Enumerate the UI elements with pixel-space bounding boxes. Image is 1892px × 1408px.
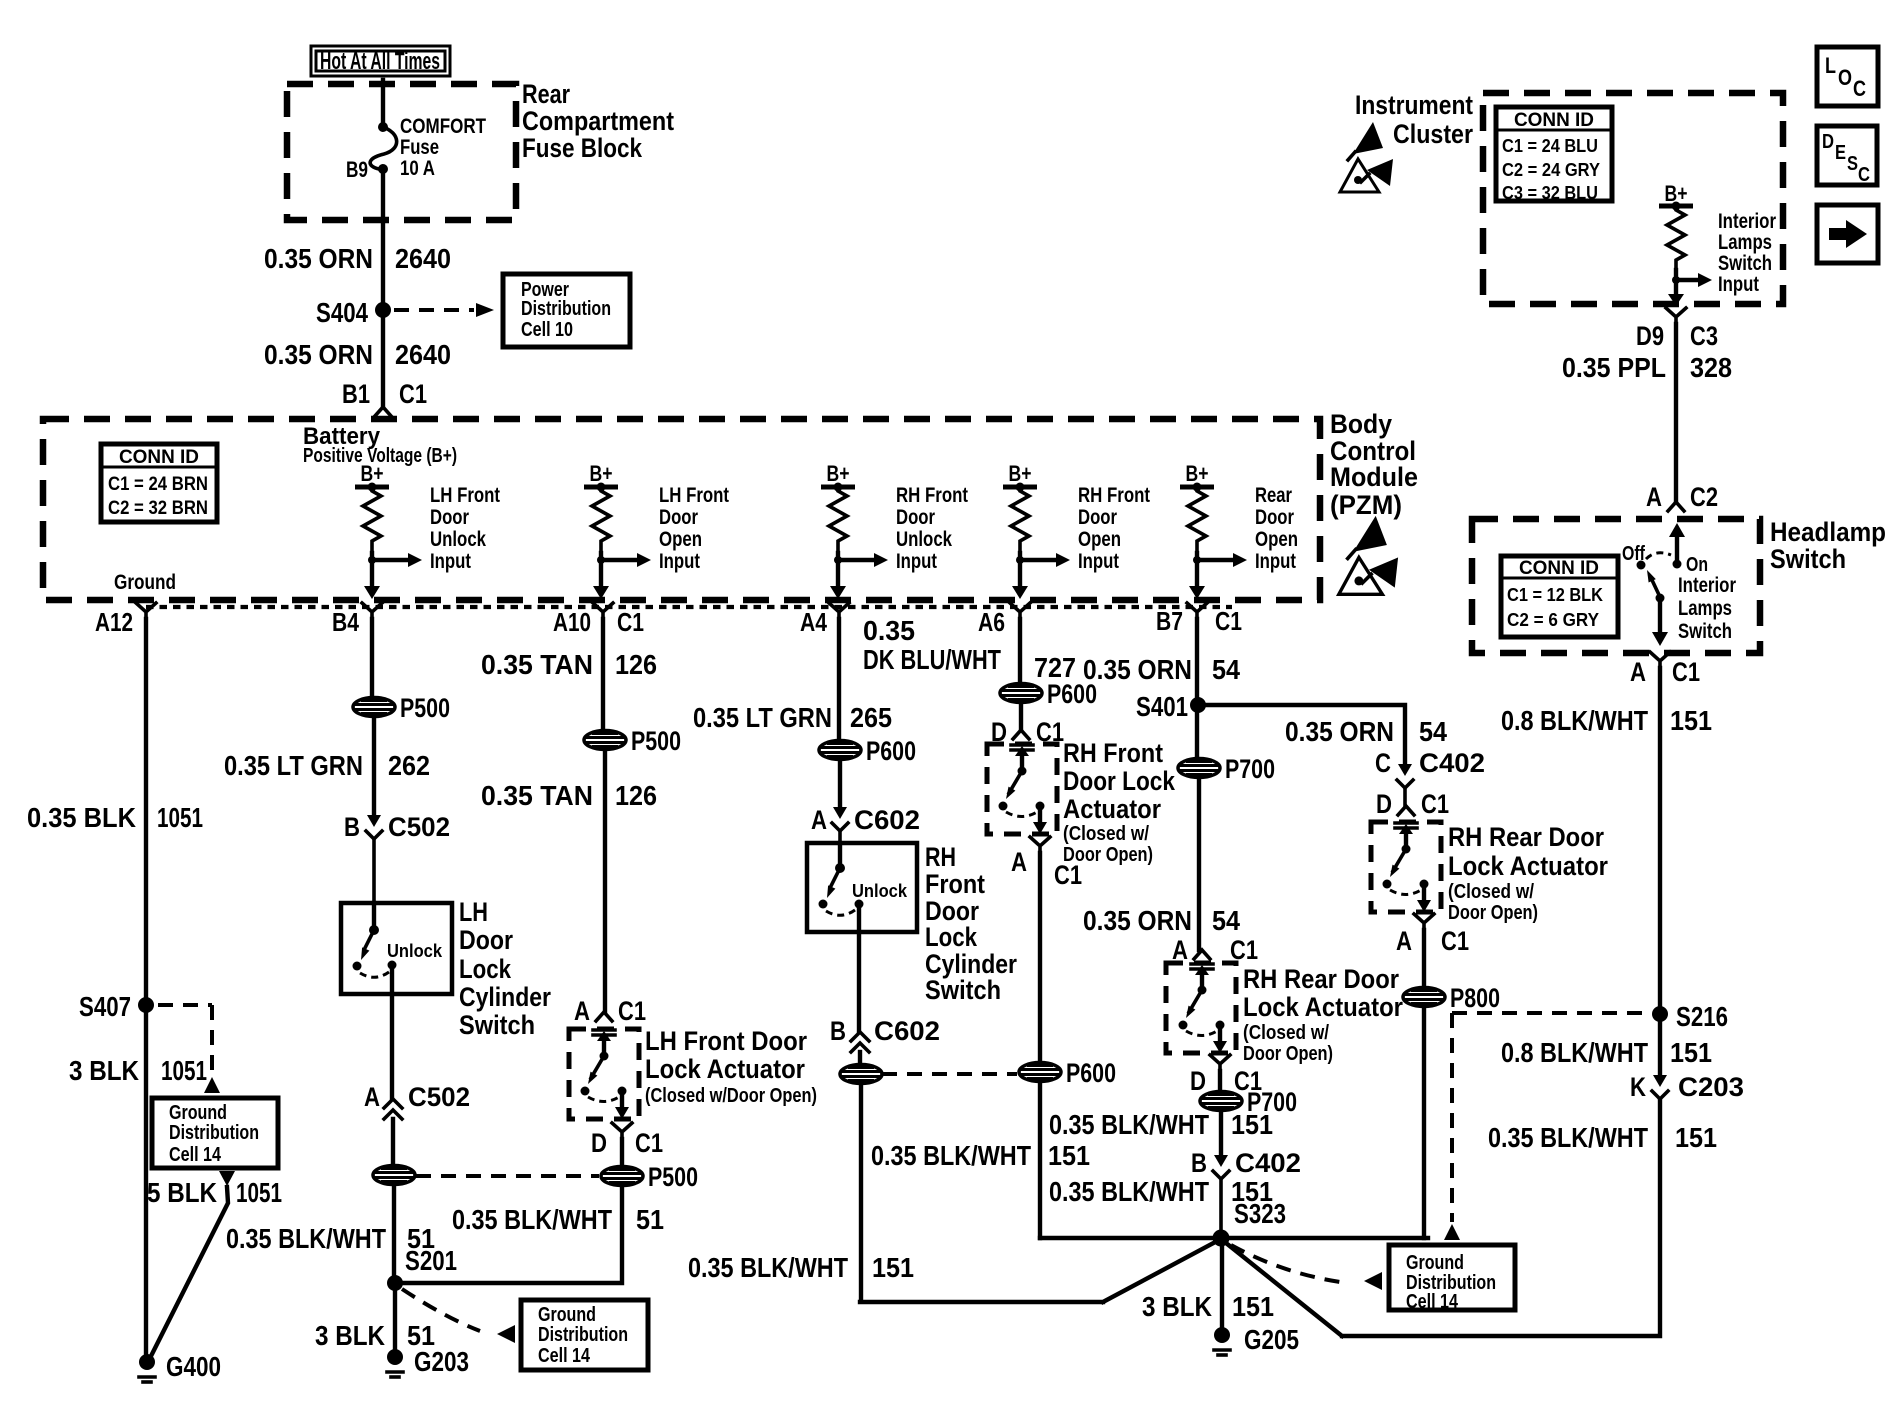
svg-text:B+: B+ — [361, 461, 384, 486]
svg-text:Instrument: Instrument — [1355, 90, 1473, 120]
wire bottom run right to headlamp column — [1221, 1099, 1660, 1336]
dashed reference S201 to Ground Distribution — [402, 1289, 480, 1331]
svg-text:S407: S407 — [79, 991, 131, 1022]
dashed box Rear Compartment Fuse Block — [287, 84, 516, 220]
svg-text:Unlock: Unlock — [852, 881, 908, 901]
svg-text:G203: G203 — [414, 1346, 469, 1377]
actuator box RH Rear Door Lock Actuator left — [1166, 963, 1236, 1053]
connector D C1 below LH actuator — [612, 1123, 632, 1139]
wire 0.35 PPL 328 — [1674, 324, 1678, 502]
svg-text:C1: C1 — [635, 1128, 663, 1158]
fuse COMFORT 10A — [378, 122, 388, 132]
pin B7 C1 — [1187, 603, 1207, 619]
svg-text:C: C — [1858, 164, 1870, 186]
svg-text:B: B — [830, 1016, 846, 1046]
svg-text:Door: Door — [896, 506, 935, 529]
svg-text:A: A — [364, 1082, 380, 1112]
svg-text:C2: C2 — [1690, 482, 1718, 512]
svg-text:Input: Input — [659, 550, 700, 573]
pin A6 — [1010, 603, 1030, 619]
svg-text:Door: Door — [1255, 506, 1294, 529]
dashed box Body Control Module PZM — [43, 419, 1320, 600]
svg-text:Open: Open — [1078, 528, 1121, 551]
svg-text:CONN ID: CONN ID — [1519, 558, 1599, 579]
svg-text:C1 = 24 BLU: C1 = 24 BLU — [1502, 136, 1598, 156]
connector P700 upper — [1178, 759, 1220, 778]
connector P500 mid — [584, 731, 626, 750]
svg-text:LH: LH — [459, 897, 488, 927]
svg-text:Unlock: Unlock — [896, 528, 952, 551]
svg-text:C2 = 24 GRY: C2 = 24 GRY — [1502, 160, 1600, 180]
svg-text:Door: Door — [459, 925, 513, 955]
svg-text:LH Front Door: LH Front Door — [645, 1026, 807, 1056]
connector D C1 below RH rear actuator left — [1210, 1055, 1230, 1071]
svg-text:C1: C1 — [1215, 606, 1242, 636]
svg-text:Rear: Rear — [1255, 484, 1292, 507]
dashed mate line P500 pair — [416, 1174, 599, 1178]
svg-text:A4: A4 — [800, 607, 827, 637]
svg-text:0.35: 0.35 — [863, 615, 915, 646]
reference box Ground Distribution Cell 14 center — [521, 1300, 648, 1370]
svg-text:D9: D9 — [1636, 321, 1664, 351]
svg-text:1051: 1051 — [157, 802, 203, 833]
wire A4 to P600 — [837, 619, 841, 740]
svg-text:C3: C3 — [1690, 321, 1718, 351]
svg-text:Switch: Switch — [1770, 544, 1846, 574]
connector P600 A6 — [1000, 684, 1042, 703]
svg-text:Distribution: Distribution — [538, 1324, 628, 1346]
svg-text:0.35 TAN: 0.35 TAN — [481, 780, 593, 811]
svg-text:B7: B7 — [1156, 606, 1183, 636]
svg-text:2640: 2640 — [395, 339, 451, 370]
svg-text:S323: S323 — [1234, 1198, 1286, 1229]
svg-text:Fuse Block: Fuse Block — [522, 133, 643, 163]
svg-text:0.35 ORN: 0.35 ORN — [264, 243, 373, 274]
svg-text:D: D — [591, 1128, 607, 1158]
svg-text:Lamps: Lamps — [1678, 597, 1732, 620]
svg-text:0.8 BLK/WHT: 0.8 BLK/WHT — [1501, 705, 1648, 736]
wire P800 down to S323 run — [1422, 1007, 1426, 1238]
svg-text:S201: S201 — [405, 1245, 457, 1276]
svg-text:Door: Door — [1078, 506, 1117, 529]
svg-text:A: A — [1646, 482, 1662, 512]
svg-text:Switch: Switch — [1718, 252, 1772, 275]
svg-text:51: 51 — [636, 1204, 664, 1235]
svg-text:151: 151 — [1232, 1291, 1274, 1322]
CONN ID table headlamp switch — [1501, 556, 1618, 637]
svg-text:126: 126 — [615, 649, 657, 680]
CONN ID table instrument cluster — [1496, 107, 1612, 201]
svg-text:0.8 BLK/WHT: 0.8 BLK/WHT — [1501, 1037, 1648, 1068]
splice S216 — [1652, 1006, 1668, 1022]
wire to P600 lower — [1038, 853, 1042, 1062]
svg-text:A: A — [1011, 847, 1027, 877]
svg-text:Switch: Switch — [1678, 620, 1732, 643]
svg-text:Unlock: Unlock — [430, 528, 486, 551]
svg-text:Cell 10: Cell 10 — [521, 319, 573, 341]
connector P600 lower — [1019, 1063, 1061, 1082]
svg-text:C1 = 24 BRN: C1 = 24 BRN — [108, 474, 208, 495]
wire 0.35 LT GRN 262 — [372, 717, 376, 815]
wire P500 to S201 — [392, 1185, 396, 1283]
svg-text:K: K — [1630, 1072, 1646, 1102]
wire 0.8 BLK-WHT 151 — [1658, 668, 1662, 1075]
svg-text:A12: A12 — [95, 607, 133, 637]
svg-text:0.35 BLK/WHT: 0.35 BLK/WHT — [1488, 1122, 1648, 1153]
svg-text:151: 151 — [1670, 705, 1712, 736]
svg-text:CONN ID: CONN ID — [119, 447, 199, 468]
connector P500 pass-through — [353, 698, 395, 717]
ground G203 — [387, 1349, 403, 1365]
wire S201 branch to P500 right half — [395, 1186, 622, 1283]
svg-text:P500: P500 — [400, 693, 450, 723]
switch box RH Front Door Lock Cylinder Switch — [807, 843, 917, 932]
svg-text:0.35 ORN: 0.35 ORN — [1083, 905, 1192, 936]
wire 0.35 BLK-WHT 151 upper — [1219, 1111, 1223, 1155]
svg-text:Cylinder: Cylinder — [459, 982, 551, 1012]
svg-text:Lock Actuator: Lock Actuator — [1448, 851, 1608, 881]
svg-text:C1 = 12 BLK: C1 = 12 BLK — [1507, 585, 1603, 605]
svg-text:Module: Module — [1330, 462, 1418, 492]
svg-text:0.35 LT GRN: 0.35 LT GRN — [693, 702, 832, 733]
connector P600 upper — [819, 741, 861, 760]
wire 0.35 ORN 2640 upper — [381, 169, 385, 406]
svg-text:C1: C1 — [399, 379, 427, 409]
svg-text:C1: C1 — [1672, 657, 1700, 687]
svg-text:Input: Input — [430, 550, 471, 573]
svg-text:Lock: Lock — [459, 954, 512, 984]
svg-text:(Closed w/: (Closed w/ — [1243, 1022, 1329, 1044]
svg-text:5 BLK: 5 BLK — [147, 1177, 217, 1208]
svg-text:P500: P500 — [648, 1162, 698, 1192]
svg-text:G400: G400 — [166, 1351, 221, 1382]
dashed reference arrow to Power Distribution — [394, 308, 474, 312]
wire 0.35 BLK 1051 — [144, 619, 148, 1355]
svg-text:Door: Door — [430, 506, 469, 529]
connector A C1 below headlamp switch — [1650, 652, 1670, 668]
svg-text:Open: Open — [1255, 528, 1298, 551]
wire 0.35 ORN 54 to RH rear actuator — [1197, 778, 1201, 950]
svg-text:Lamps: Lamps — [1718, 231, 1772, 254]
svg-text:Headlamp: Headlamp — [1770, 517, 1886, 547]
svg-text:Distribution: Distribution — [521, 298, 611, 320]
connector P700 lower — [1218, 1071, 1222, 1091]
actuator box LH Front Door Lock Actuator — [569, 1029, 639, 1119]
wire 3 BLK 51 to G203 — [393, 1283, 397, 1350]
reference box DESC — [1817, 126, 1877, 185]
switch box LH Door Lock Cylinder Switch — [341, 903, 452, 994]
svg-text:O: O — [1838, 65, 1852, 90]
svg-text:0.35 BLK: 0.35 BLK — [27, 802, 136, 833]
svg-text:Door Open): Door Open) — [1243, 1043, 1333, 1065]
svg-text:C502: C502 — [408, 1082, 470, 1112]
svg-text:On: On — [1686, 554, 1708, 576]
svg-text:Lock: Lock — [925, 922, 978, 952]
svg-text:E: E — [1835, 142, 1846, 164]
svg-text:C1: C1 — [1054, 860, 1082, 890]
svg-text:265: 265 — [850, 702, 892, 733]
svg-text:Cell 14: Cell 14 — [169, 1144, 222, 1166]
svg-text:C502: C502 — [388, 812, 450, 842]
svg-text:3 BLK: 3 BLK — [69, 1055, 139, 1086]
svg-text:Input: Input — [1718, 273, 1759, 296]
svg-text:A6: A6 — [978, 607, 1005, 637]
svg-text:0.35 TAN: 0.35 TAN — [481, 649, 593, 680]
wire S323 horizontal run — [1040, 1236, 1428, 1240]
actuator box RH Front Door Lock Actuator — [987, 744, 1057, 834]
dashed box Headlamp Switch — [1472, 519, 1760, 653]
wire 0.35 BLK-WHT 151 lower to S323 — [1219, 1181, 1223, 1238]
svg-text:0.35 BLK/WHT: 0.35 BLK/WHT — [226, 1223, 386, 1254]
svg-text:Ground: Ground — [1406, 1252, 1464, 1274]
reference box Ground Distribution Cell 14 left — [152, 1098, 278, 1168]
wire to P800 — [1422, 930, 1426, 987]
svg-text:Lock Actuator: Lock Actuator — [645, 1054, 805, 1084]
svg-text:S216: S216 — [1676, 1001, 1728, 1032]
svg-text:Distribution: Distribution — [169, 1122, 259, 1144]
svg-text:Hot At All Times: Hot At All Times — [320, 48, 440, 75]
svg-text:RH Front: RH Front — [1078, 484, 1150, 507]
svg-text:B+: B+ — [1186, 461, 1209, 486]
svg-text:P800: P800 — [1450, 983, 1500, 1013]
pin A12 — [136, 603, 156, 619]
wire switch to C502 A — [390, 965, 394, 1099]
svg-text:Input: Input — [1255, 550, 1296, 573]
svg-text:Door Open): Door Open) — [1448, 902, 1538, 924]
svg-text:RH: RH — [925, 842, 956, 872]
svg-text:B+: B+ — [590, 461, 613, 486]
svg-text:(Closed w/: (Closed w/ — [1063, 823, 1149, 845]
svg-text:P600: P600 — [866, 736, 916, 766]
svg-text:Cell 14: Cell 14 — [1406, 1291, 1459, 1313]
svg-text:1051: 1051 — [161, 1055, 207, 1086]
connector A C1 below RH front actuator — [1030, 837, 1050, 853]
svg-text:C1: C1 — [617, 607, 644, 637]
svg-text:A: A — [574, 996, 590, 1026]
CONN ID table BCM — [101, 444, 217, 522]
svg-text:151: 151 — [1048, 1140, 1090, 1171]
svg-text:Door Lock: Door Lock — [1063, 766, 1176, 796]
svg-text:Unlock: Unlock — [387, 941, 443, 961]
svg-text:C2 = 32 BRN: C2 = 32 BRN — [108, 498, 208, 519]
reference box Ground Distribution Cell 14 right — [1389, 1245, 1515, 1310]
wire 0.35 TAN 126 lower — [603, 750, 607, 1012]
svg-text:151: 151 — [1231, 1109, 1273, 1140]
svg-text:DK BLU/WHT: DK BLU/WHT — [863, 644, 1001, 675]
svg-text:B1: B1 — [342, 379, 370, 409]
svg-text:Cluster: Cluster — [1393, 119, 1473, 149]
svg-text:C602: C602 — [874, 1016, 940, 1046]
svg-text:2640: 2640 — [395, 243, 451, 274]
svg-text:RH Rear Door: RH Rear Door — [1243, 964, 1399, 994]
svg-text:54: 54 — [1212, 905, 1240, 936]
svg-text:151: 151 — [1670, 1037, 1712, 1068]
wire A10 to P500 — [601, 619, 605, 731]
svg-text:D: D — [1822, 131, 1834, 153]
svg-text:54: 54 — [1212, 654, 1240, 685]
svg-text:LH Front: LH Front — [430, 484, 500, 507]
svg-text:D: D — [1190, 1066, 1206, 1096]
switch interior lamps on-off — [1675, 536, 1679, 563]
svg-text:A: A — [1396, 926, 1412, 956]
connector P600 left half — [840, 1065, 882, 1084]
svg-text:A: A — [1630, 657, 1646, 687]
dashed reference S216 branch — [1452, 1013, 1645, 1222]
connector face dashed line below BCM — [146, 605, 1232, 609]
svg-text:Actuator: Actuator — [1063, 794, 1161, 824]
connector P500 right half — [601, 1167, 643, 1186]
wire A6 to P600 — [1018, 619, 1022, 683]
svg-text:Switch: Switch — [459, 1010, 535, 1040]
pin A10 C1 — [593, 603, 613, 619]
ground G400 — [139, 1354, 155, 1370]
svg-text:C1: C1 — [1421, 789, 1449, 819]
svg-text:P500: P500 — [631, 726, 681, 756]
svg-text:262: 262 — [388, 750, 430, 781]
svg-text:C3 = 32 BLU: C3 = 32 BLU — [1502, 183, 1598, 203]
svg-text:Fuse: Fuse — [400, 136, 439, 159]
ESD symbol instrument cluster — [1353, 122, 1383, 154]
svg-text:A: A — [811, 805, 827, 835]
wire S323 to G205 — [1220, 1238, 1224, 1327]
svg-text:0.35 LT GRN: 0.35 LT GRN — [224, 750, 363, 781]
svg-text:RH Front: RH Front — [896, 484, 968, 507]
dashed reference S323 to Ground Distribution — [1231, 1245, 1340, 1282]
svg-text:0.35 ORN: 0.35 ORN — [1285, 716, 1394, 747]
svg-text:B+: B+ — [827, 461, 850, 486]
wire B4 to P500 — [370, 619, 374, 697]
svg-text:Interior: Interior — [1718, 210, 1776, 233]
dashed reference from S407 to Ground Distribution — [158, 1005, 212, 1076]
svg-text:328: 328 — [1690, 352, 1732, 383]
wire 0.35 BLK-WHT 151 to S323 — [1038, 1082, 1042, 1238]
svg-text:B: B — [344, 812, 360, 842]
svg-text:0.35 BLK/WHT: 0.35 BLK/WHT — [1049, 1176, 1209, 1207]
svg-text:54: 54 — [1419, 716, 1447, 747]
svg-text:151: 151 — [1675, 1122, 1717, 1153]
svg-text:Front: Front — [925, 869, 985, 899]
svg-text:RH Rear Door: RH Rear Door — [1448, 822, 1604, 852]
svg-text:A10: A10 — [553, 607, 591, 637]
svg-text:C: C — [1853, 76, 1866, 101]
reference box arrow — [1817, 205, 1878, 263]
svg-text:Input: Input — [896, 550, 937, 573]
svg-text:Switch: Switch — [925, 975, 1001, 1005]
svg-text:LH Front: LH Front — [659, 484, 729, 507]
svg-text:P600: P600 — [1066, 1058, 1116, 1088]
svg-text:C203: C203 — [1678, 1072, 1744, 1102]
svg-text:Interior: Interior — [1678, 574, 1736, 597]
connector D9 C3 — [1666, 308, 1686, 324]
svg-text:0.35 ORN: 0.35 ORN — [264, 339, 373, 370]
svg-text:Compartment: Compartment — [522, 106, 674, 136]
svg-text:C1: C1 — [618, 996, 646, 1026]
svg-text:C402: C402 — [1419, 748, 1485, 778]
svg-text:C2 = 6 GRY: C2 = 6 GRY — [1507, 610, 1599, 630]
svg-text:RH Front: RH Front — [1063, 738, 1163, 768]
svg-text:Body: Body — [1330, 409, 1392, 439]
svg-text:S: S — [1847, 153, 1858, 175]
svg-text:(Closed w/Door Open): (Closed w/Door Open) — [645, 1085, 817, 1107]
wire B7 to S401 — [1195, 619, 1199, 758]
svg-text:D: D — [1376, 789, 1392, 819]
svg-text:(PZM): (PZM) — [1330, 490, 1402, 520]
wire fuse feed — [381, 80, 385, 127]
ground G205 — [1214, 1327, 1230, 1343]
svg-text:C1: C1 — [1441, 926, 1469, 956]
svg-text:0.35 BLK/WHT: 0.35 BLK/WHT — [452, 1204, 612, 1235]
svg-text:3 BLK: 3 BLK — [315, 1320, 385, 1351]
svg-text:0.35 PPL: 0.35 PPL — [1562, 352, 1666, 383]
svg-text:0.35 BLK/WHT: 0.35 BLK/WHT — [1049, 1109, 1209, 1140]
actuator box RH Rear Door Lock Actuator right — [1371, 822, 1441, 912]
pin A4 — [829, 603, 849, 619]
svg-text:C602: C602 — [854, 805, 920, 835]
reference box Power Distribution Cell 10 — [503, 274, 630, 347]
svg-text:Open: Open — [659, 528, 702, 551]
pin B4 — [362, 603, 382, 619]
svg-text:G205: G205 — [1244, 1324, 1299, 1355]
svg-text:L: L — [1825, 53, 1836, 78]
connector P800 — [1403, 988, 1445, 1007]
dashed box Instrument Cluster — [1483, 93, 1783, 304]
svg-text:0.35 ORN: 0.35 ORN — [1083, 654, 1192, 685]
svg-text:B9: B9 — [346, 157, 368, 182]
wire 5 BLK 1051 to G400 — [219, 1171, 235, 1186]
dashed mate line P600 pair — [882, 1072, 1017, 1076]
svg-text:B+: B+ — [1009, 461, 1032, 486]
connector P500 left half — [373, 1166, 415, 1185]
svg-text:Ground: Ground — [169, 1102, 227, 1124]
wire switch to C602 B — [857, 904, 861, 1032]
wire S401 branch right — [1198, 705, 1405, 764]
svg-text:COMFORT: COMFORT — [400, 115, 486, 138]
svg-text:C402: C402 — [1235, 1148, 1301, 1178]
svg-text:S404: S404 — [316, 297, 368, 328]
svg-text:Door: Door — [659, 506, 698, 529]
svg-text:151: 151 — [872, 1252, 914, 1283]
ESD symbol BCM — [1353, 516, 1387, 552]
svg-text:CONN ID: CONN ID — [1514, 110, 1594, 131]
svg-text:B4: B4 — [332, 607, 359, 637]
svg-text:10 A: 10 A — [400, 157, 435, 180]
svg-text:Ground: Ground — [114, 571, 176, 594]
svg-text:S401: S401 — [1136, 691, 1188, 722]
svg-text:Ground: Ground — [538, 1304, 596, 1326]
svg-text:0.35 BLK/WHT: 0.35 BLK/WHT — [688, 1252, 848, 1283]
svg-text:B: B — [1191, 1148, 1207, 1178]
svg-text:0.35 BLK/WHT: 0.35 BLK/WHT — [871, 1140, 1031, 1171]
svg-text:Input: Input — [1078, 550, 1119, 573]
svg-text:Rear: Rear — [522, 79, 570, 109]
wire 0.35 BLK-WHT 151 down to S323 run — [860, 1084, 1221, 1302]
reference box LOC — [1817, 47, 1878, 106]
wire to C602 — [838, 760, 842, 807]
svg-text:126: 126 — [615, 780, 657, 811]
svg-text:1051: 1051 — [236, 1177, 282, 1208]
svg-text:C: C — [1375, 748, 1391, 778]
svg-text:Cell 14: Cell 14 — [538, 1345, 591, 1367]
svg-text:3 BLK: 3 BLK — [1142, 1291, 1212, 1322]
svg-text:P700: P700 — [1225, 754, 1275, 784]
svg-text:(Closed w/: (Closed w/ — [1448, 881, 1534, 903]
svg-text:Lock Actuator: Lock Actuator — [1243, 992, 1403, 1022]
connector A C1 below RH rear actuator right — [1414, 914, 1434, 930]
label box Hot At All Times — [311, 46, 450, 76]
